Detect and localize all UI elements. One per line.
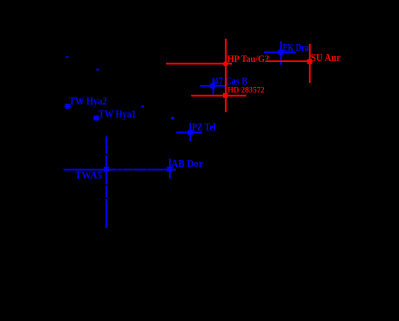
star marker TW Hya2 xyxy=(65,104,71,109)
wire: PZ Tel vertical error bar xyxy=(189,123,191,142)
wire: HP Tau/G2 + HD 283572 vertical error bar xyxy=(225,39,227,112)
star marker EK Dra xyxy=(278,49,284,55)
wire: HP Tau/G2 horizontal error bar xyxy=(166,63,232,65)
wire: TWA5 + AB Dor shared horizontal error bar (dashed right part) xyxy=(64,169,177,171)
wire: AB Dor vertical error bar xyxy=(169,159,171,179)
star marker 47 Cas B xyxy=(210,83,216,89)
square marker HD 283572 xyxy=(223,93,228,98)
svg-text:PZ Tel: PZ Tel xyxy=(192,121,216,133)
wire: SU Aur vertical error bar xyxy=(309,44,311,83)
star marker SU Aur xyxy=(307,59,313,64)
wire: SU Aur horizontal error bar xyxy=(267,60,310,62)
small data point 3 xyxy=(141,105,144,107)
svg-text:TW Hya1: TW Hya1 xyxy=(99,109,137,121)
svg-text:SU Aur: SU Aur xyxy=(311,52,341,64)
svg-text:EK Dra: EK Dra xyxy=(283,42,309,54)
small data point 1 xyxy=(66,56,69,58)
svg-text:TWA5: TWA5 xyxy=(75,170,102,182)
svg-text:AB Dor: AB Dor xyxy=(171,158,203,170)
star marker AB Dor xyxy=(166,166,172,172)
svg-text:HP Tau/G2: HP Tau/G2 xyxy=(227,55,269,65)
wire: PZ Tel horizontal error bar xyxy=(176,132,202,134)
wire: EK Dra horizontal error bar xyxy=(264,51,296,53)
star marker PZ Tel xyxy=(187,130,193,136)
star marker TWA5 xyxy=(103,166,109,172)
wire: HD 283572 horizontal error bar xyxy=(191,95,246,97)
star marker TW Hya1 xyxy=(93,115,99,120)
small data point 2 xyxy=(96,69,99,71)
wire: 47 Cas B horizontal error bar xyxy=(200,85,226,87)
small data point 4 xyxy=(171,117,174,120)
svg-text:TW Hya2: TW Hya2 xyxy=(69,96,107,108)
svg-text:HD 283572: HD 283572 xyxy=(228,86,265,95)
wire: EK Dra vertical error bar xyxy=(280,41,282,64)
wire: 47 Cas B vertical error bar xyxy=(212,78,214,94)
circle marker HP Tau/G2 xyxy=(223,61,228,66)
wire: TWA5 dashed vertical error bar xyxy=(105,136,107,228)
